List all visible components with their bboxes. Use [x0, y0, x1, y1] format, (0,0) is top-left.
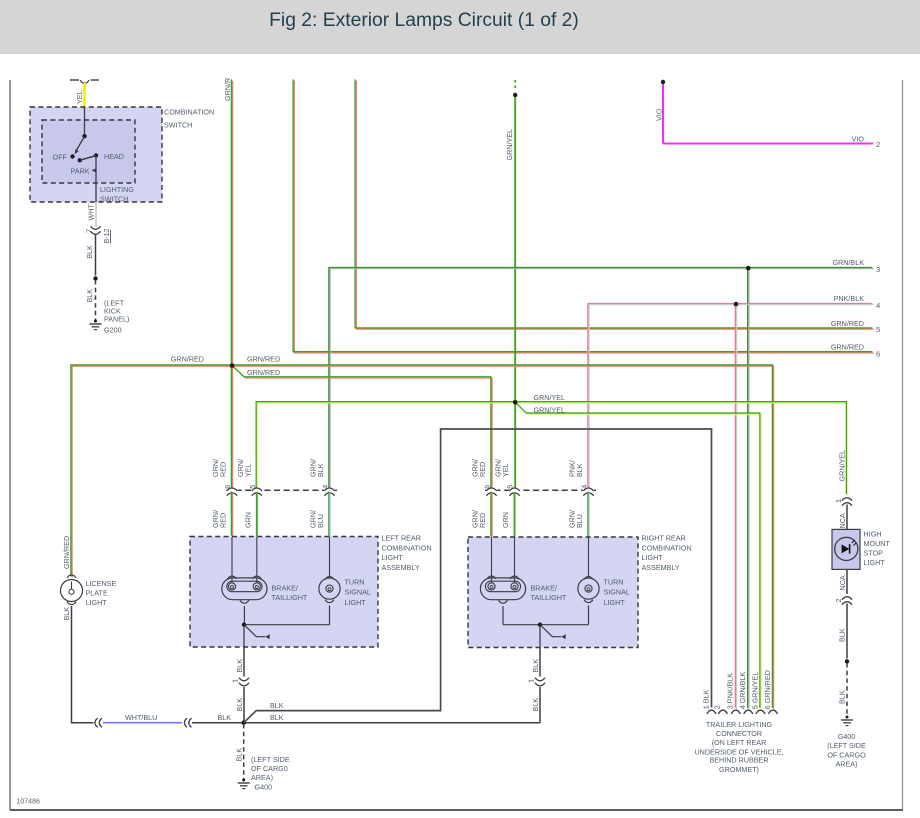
svg-text:2: 2 [713, 705, 722, 709]
svg-text:5: 5 [506, 485, 515, 489]
svg-text:BLK: BLK [531, 659, 540, 673]
svg-text:BLK: BLK [218, 713, 232, 722]
svg-text:GRN: GRN [243, 512, 252, 528]
svg-text:1: 1 [527, 679, 536, 683]
svg-text:1: 1 [231, 679, 240, 683]
svg-text:RIGHT REAR: RIGHT REAR [642, 534, 686, 543]
svg-text:BLK: BLK [838, 690, 847, 704]
svg-text:2: 2 [834, 599, 843, 603]
svg-text:COMBINATION: COMBINATION [382, 543, 432, 552]
svg-text:4: 4 [321, 485, 330, 489]
svg-text:OF CARG0: OF CARG0 [251, 764, 288, 773]
svg-text:NCA: NCA [838, 575, 847, 590]
svg-text:CONNECTOR: CONNECTOR [716, 729, 762, 738]
svg-text:5: 5 [876, 325, 880, 334]
svg-text:G400: G400 [255, 783, 273, 792]
svg-text:GRN/RED: GRN/RED [62, 536, 71, 569]
svg-text:GRN/BLK: GRN/BLK [832, 258, 864, 267]
svg-text:RED: RED [219, 513, 228, 528]
svg-text:WHT: WHT [87, 204, 96, 221]
svg-text:LIGHT: LIGHT [382, 553, 404, 562]
svg-text:TAILLIGHT: TAILLIGHT [272, 593, 308, 602]
svg-text:BRAKE/: BRAKE/ [531, 584, 557, 593]
svg-text:GRN/RED: GRN/RED [171, 354, 204, 363]
svg-text:BLK: BLK [531, 698, 540, 712]
svg-text:PARK: PARK [71, 167, 90, 176]
svg-text:PLATE: PLATE [86, 588, 108, 597]
svg-text:BLK: BLK [235, 659, 244, 673]
svg-text:YEL: YEL [243, 463, 252, 477]
svg-text:SWITCH: SWITCH [100, 195, 128, 204]
svg-text:BRAKE/: BRAKE/ [272, 584, 298, 593]
svg-text:GRN: GRN [501, 512, 510, 528]
svg-text:PNK/BLK: PNK/BLK [834, 294, 865, 303]
svg-text:6: 6 [223, 485, 232, 489]
svg-text:YEL: YEL [75, 90, 84, 104]
svg-text:YEL: YEL [501, 463, 510, 477]
svg-text:AREA): AREA) [836, 760, 858, 769]
svg-text:4 GRN/BLK: 4 GRN/BLK [738, 672, 747, 710]
svg-text:6: 6 [483, 485, 492, 489]
svg-text:BLU: BLU [316, 514, 325, 528]
svg-text:3 PNK/BLK: 3 PNK/BLK [726, 673, 735, 710]
svg-text:COMBINATION: COMBINATION [164, 108, 214, 117]
svg-text:VIO: VIO [655, 108, 664, 121]
svg-text:TAILLIGHT: TAILLIGHT [531, 593, 567, 602]
svg-text:BLK: BLK [270, 713, 284, 722]
svg-text:VIO: VIO [852, 134, 865, 143]
svg-text:3: 3 [876, 265, 880, 274]
svg-text:LIGHT: LIGHT [86, 598, 108, 607]
svg-text:SWITCH: SWITCH [164, 121, 192, 130]
svg-text:GRN/YEL: GRN/YEL [534, 406, 566, 415]
svg-text:LIGHT: LIGHT [642, 553, 664, 562]
svg-text:GROMMET): GROMMET) [719, 765, 759, 774]
svg-text:SIGNAL: SIGNAL [345, 588, 371, 597]
svg-text:ASSEMBLY: ASSEMBLY [382, 563, 420, 572]
svg-text:BLK: BLK [270, 701, 284, 710]
svg-text:GRN/YEL: GRN/YEL [534, 393, 566, 402]
svg-text:LIGHT: LIGHT [864, 558, 886, 567]
svg-text:BLK: BLK [838, 628, 847, 642]
svg-text:TURN: TURN [604, 577, 624, 586]
svg-text:GRN/RED: GRN/RED [247, 354, 280, 363]
svg-text:PANEL): PANEL) [104, 315, 129, 324]
svg-text:RED: RED [478, 513, 487, 528]
svg-text:BLK: BLK [62, 607, 71, 621]
svg-text:LIGHT: LIGHT [604, 598, 626, 607]
svg-text:4: 4 [580, 485, 589, 489]
svg-text:LIGHT: LIGHT [345, 598, 367, 607]
svg-text:2: 2 [876, 140, 880, 149]
svg-text:LICENSE: LICENSE [86, 579, 117, 588]
svg-text:(LEFT SIDE: (LEFT SIDE [827, 741, 866, 750]
svg-text:BLK: BLK [85, 245, 94, 259]
svg-text:BEHIND RUBBER: BEHIND RUBBER [709, 756, 768, 765]
svg-text:NCA: NCA [838, 513, 847, 528]
svg-text:HIGH: HIGH [864, 530, 882, 539]
svg-text:107486: 107486 [17, 799, 40, 806]
svg-text:BLK: BLK [316, 463, 325, 477]
svg-text:Fig 2: Exterior Lamps Circuit: Fig 2: Exterior Lamps Circuit (1 of 2) [269, 10, 579, 31]
svg-text:B-12: B-12 [102, 228, 111, 243]
svg-text:1 BLK: 1 BLK [701, 690, 710, 710]
svg-text:1: 1 [834, 499, 843, 503]
svg-text:4: 4 [876, 301, 880, 310]
svg-text:MOUNT: MOUNT [864, 539, 891, 548]
svg-text:HEAD: HEAD [104, 152, 124, 161]
svg-text:RED: RED [219, 462, 228, 477]
svg-text:OF CARGO: OF CARGO [827, 750, 866, 759]
svg-text:BLK: BLK [575, 463, 584, 477]
svg-text:7: 7 [85, 229, 94, 233]
svg-text:OFF: OFF [53, 152, 68, 161]
svg-text:BLK: BLK [85, 289, 94, 303]
svg-text:BLK: BLK [235, 698, 244, 712]
svg-text:G400: G400 [838, 732, 856, 741]
svg-text:COMBINATION: COMBINATION [642, 543, 692, 552]
svg-text:LIGHTING: LIGHTING [100, 185, 134, 194]
svg-text:6 GRN/RED: 6 GRN/RED [763, 670, 772, 709]
svg-text:SIGNAL: SIGNAL [604, 588, 630, 597]
svg-text:WHT/BLU: WHT/BLU [125, 713, 157, 722]
svg-text:6: 6 [876, 350, 880, 359]
svg-text:GRN/RED: GRN/RED [247, 368, 280, 377]
svg-text:LEFT REAR: LEFT REAR [382, 534, 421, 543]
svg-text:5 GRN/YEL: 5 GRN/YEL [750, 672, 759, 710]
svg-text:(ON LEFT REAR: (ON LEFT REAR [712, 738, 767, 747]
svg-text:TURN: TURN [345, 577, 365, 586]
svg-text:GRN/RED: GRN/RED [831, 319, 864, 328]
svg-text:BLU: BLU [575, 514, 584, 528]
svg-text:GRN/R: GRN/R [223, 78, 232, 101]
svg-text:BLK: BLK [235, 748, 244, 762]
svg-text:GRN/RED: GRN/RED [831, 343, 864, 352]
svg-text:G200: G200 [104, 326, 122, 335]
svg-text:TRAILER LIGHTING: TRAILER LIGHTING [706, 720, 773, 729]
svg-text:STOP: STOP [864, 549, 884, 558]
svg-text:RED: RED [478, 462, 487, 477]
svg-text:GRN/YEL: GRN/YEL [505, 129, 514, 161]
svg-text:(LEFT SIDE: (LEFT SIDE [251, 755, 290, 764]
svg-text:GRN/YEL: GRN/YEL [838, 450, 847, 482]
svg-text:ASSEMBLY: ASSEMBLY [642, 563, 680, 572]
svg-text:5: 5 [248, 485, 257, 489]
svg-text:AREA): AREA) [251, 773, 273, 782]
